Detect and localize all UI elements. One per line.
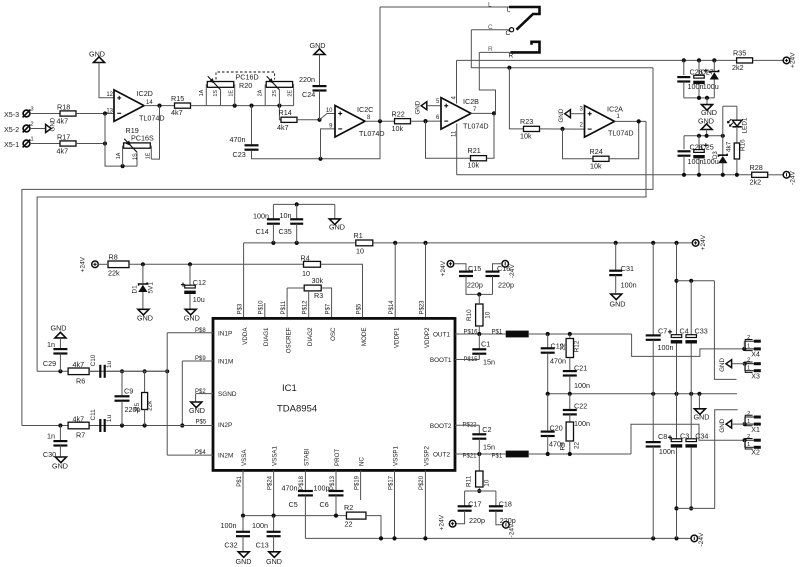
wire STABI pin to C5 — [304, 470, 306, 490]
svg-text:-24V: -24V — [698, 532, 705, 547]
wire D3 column upper — [722, 106, 724, 154]
wire C22 to R9 — [569, 414, 571, 422]
svg-text:220p: 220p — [469, 516, 485, 525]
svg-text:GND: GND — [236, 557, 252, 566]
resistor R8 — [108, 252, 129, 277]
capacitor C20 — [541, 394, 565, 454]
wire X5-2 to GND — [30, 128, 46, 130]
wire LED branch bridge — [723, 105, 737, 107]
svg-text:C17: C17 — [468, 499, 481, 508]
wire VDDP1 pin column — [394, 243, 396, 319]
svg-text:C1: C1 — [481, 340, 490, 349]
svg-text:R28: R28 — [750, 163, 763, 172]
wire IC2B output — [471, 112, 495, 114]
wire centre ground line — [548, 393, 737, 395]
svg-text:P$1: P$1 — [492, 454, 503, 460]
svg-text:470n: 470n — [550, 356, 566, 365]
wire C33 to gnd line — [690, 344, 692, 394]
wire sleeve line to IN2 row — [22, 68, 653, 426]
svg-text:OUT1: OUT1 — [433, 332, 450, 339]
wire gnd line to C8 — [652, 394, 654, 442]
wire R35 to +24V terminal — [753, 59, 784, 61]
LED LED1 — [727, 117, 748, 133]
svg-text:P$7: P$7 — [325, 303, 331, 314]
wire IN2 row — [22, 425, 213, 427]
svg-text:STABI: STABI — [303, 448, 310, 466]
wire OSCREF to R3 — [287, 287, 304, 289]
op-amp IC2D — [106, 89, 164, 122]
junction C7/C8 — [651, 392, 655, 396]
junction D1 — [141, 262, 145, 266]
wire IC2B pin11 to -24V rail — [456, 124, 458, 175]
wire X5-1 to R17 — [30, 143, 60, 145]
svg-text:IN2P: IN2P — [218, 422, 232, 429]
capacitor C21 — [563, 363, 590, 393]
junction C20 out — [546, 452, 550, 456]
svg-text:BOOT2: BOOT2 — [430, 423, 452, 430]
capacitor C2 — [455, 425, 495, 454]
svg-text:1: 1 — [747, 366, 750, 372]
wire to LED1 — [736, 106, 738, 120]
svg-text:100n: 100n — [574, 381, 590, 390]
svg-text:C15: C15 — [468, 264, 481, 273]
svg-text:GND: GND — [137, 313, 153, 322]
wire OUT1 net — [529, 333, 632, 335]
wire LED to R16 — [736, 127, 738, 143]
wire R21 to output — [487, 113, 495, 158]
ground at X5-2 — [46, 117, 57, 132]
svg-text:C4: C4 — [680, 326, 689, 335]
junction C7 — [651, 241, 655, 245]
wire OUT2 to R11 — [478, 454, 480, 471]
wire SGND to ground — [195, 394, 197, 402]
svg-text:1u: 1u — [106, 360, 113, 368]
wire PROT pin to C6 — [335, 470, 337, 490]
potentiometer R19 PC16S — [116, 126, 154, 166]
ground below C31 — [610, 294, 626, 309]
wire C15 to R10 node — [466, 276, 493, 294]
capacitor C26 — [677, 68, 703, 92]
wire DIAG1 stub — [264, 303, 266, 318]
junction gnd stub — [705, 134, 709, 138]
wire BOOT2 to C2 — [478, 425, 480, 434]
svg-text:C29: C29 — [43, 359, 56, 368]
ferrite bead L2 (P$1) — [506, 451, 529, 458]
svg-text:P$16: P$16 — [464, 330, 479, 336]
resistor R1 — [354, 231, 373, 256]
potentiometer R20 PC16D gang 1 — [199, 76, 235, 105]
svg-text:P$11: P$11 — [281, 300, 287, 314]
wire gnd line to C22 — [569, 394, 571, 410]
svg-text:GND: GND — [189, 406, 205, 415]
junction C23 tap — [249, 104, 253, 108]
zener diode D2 — [710, 70, 719, 80]
wire reference row — [129, 263, 304, 265]
svg-text:GND: GND — [719, 418, 726, 432]
resistor R9 — [559, 422, 580, 454]
svg-text:IC2D: IC2D — [137, 89, 153, 98]
junction C6 bottom — [334, 514, 338, 518]
wire IC2D output — [144, 105, 175, 107]
junction GND tap top — [705, 96, 709, 100]
junction C4/C3 — [674, 392, 678, 396]
svg-text:22: 22 — [573, 441, 580, 449]
svg-text:GND: GND — [266, 557, 282, 566]
svg-text:C34: C34 — [695, 432, 708, 441]
terminal -24V at C18 — [503, 522, 516, 538]
wire to C13 — [273, 516, 275, 532]
svg-text:2: 2 — [747, 335, 750, 341]
wire main volume row — [191, 105, 294, 107]
svg-text:1A: 1A — [199, 89, 205, 96]
wire C12 to ground — [189, 294, 191, 309]
svg-text:2k2: 2k2 — [750, 178, 762, 187]
junction IN1P column — [165, 369, 169, 373]
potentiometer R20 PC16D gang 2 — [258, 76, 294, 105]
svg-text:VSSP1: VSSP1 — [393, 445, 400, 466]
capacitor C22 — [563, 394, 590, 428]
svg-text:1: 1 — [31, 137, 34, 143]
svg-text:4k7: 4k7 — [277, 123, 289, 132]
svg-text:2S: 2S — [272, 90, 278, 97]
capacitor C19 — [541, 334, 566, 394]
wire to C33 — [690, 281, 692, 335]
junction VSSP2 — [423, 536, 427, 540]
svg-text:P$24: P$24 — [267, 475, 273, 490]
resistor R21 — [468, 146, 487, 169]
svg-text:1: 1 — [747, 442, 750, 448]
wire VSSA1 pin column — [273, 470, 275, 515]
svg-text:2: 2 — [747, 411, 750, 417]
junction C13 top — [272, 514, 276, 518]
svg-text:VSSP2: VSSP2 — [423, 445, 430, 466]
wire +24V to C7 — [652, 243, 654, 336]
junction C19 gnd — [546, 392, 550, 396]
svg-text:DIAG2: DIAG2 — [307, 327, 314, 346]
svg-text:R8: R8 — [109, 252, 118, 261]
wire C20 to OUT2 — [547, 436, 549, 454]
svg-text:C22: C22 — [574, 401, 587, 410]
resistor R18 — [57, 103, 77, 126]
ground below D1 — [137, 309, 153, 322]
svg-text:C10: C10 — [90, 354, 97, 366]
svg-text:2: 2 — [747, 434, 750, 440]
wire IC2C inv to feedback row — [321, 129, 336, 159]
svg-text:IN2M: IN2M — [218, 453, 233, 460]
wire R18 to IC2D inverting input — [76, 113, 114, 115]
wire R23 to IC2A inv — [540, 128, 585, 130]
svg-text:4k7: 4k7 — [73, 414, 85, 423]
svg-text:GND: GND — [89, 50, 105, 59]
svg-text:4k7: 4k7 — [73, 360, 85, 369]
svg-text:100n: 100n — [659, 447, 675, 456]
wire R2 to -24V rail — [366, 516, 381, 539]
junction R17 node — [103, 141, 107, 145]
svg-text:P$1: P$1 — [492, 330, 503, 336]
wire to R5 — [144, 371, 146, 392]
capacitor C34 — [685, 394, 708, 511]
wire R contact to IC2B output — [479, 52, 495, 113]
wire VSSA pin column — [242, 470, 244, 515]
junction X2 — [743, 438, 747, 442]
junction R12 — [568, 332, 572, 336]
svg-text:10n: 10n — [280, 211, 292, 220]
svg-text:VSSA: VSSA — [241, 449, 248, 466]
wire R4 to MODE pin — [321, 264, 363, 318]
svg-text:100n: 100n — [221, 521, 237, 530]
svg-text:+24V: +24V — [80, 256, 87, 272]
capacitor C14 — [253, 211, 280, 236]
wire to ground — [706, 98, 708, 105]
svg-text:R1: R1 — [354, 231, 363, 240]
ground at X3 — [719, 358, 732, 372]
junction IC2A inv node — [560, 127, 564, 131]
svg-text:1n: 1n — [47, 431, 55, 440]
junction IN1M to IN2 row — [180, 423, 184, 427]
wire X5-3 to R18 — [30, 113, 60, 115]
junction C17/C18 — [477, 489, 481, 493]
capacitor C15 — [459, 264, 483, 289]
svg-text:22: 22 — [345, 520, 353, 529]
svg-text:1u: 1u — [106, 415, 113, 423]
svg-text:+24V: +24V — [440, 260, 447, 276]
junction C3 bottom — [674, 536, 678, 540]
svg-text:R2: R2 — [344, 503, 353, 512]
svg-text:15n: 15n — [483, 357, 495, 366]
junction R2 — [379, 536, 383, 540]
svg-text:C9: C9 — [124, 387, 133, 396]
wire to C9 — [121, 371, 123, 396]
wire NC stub — [360, 470, 362, 500]
svg-text:100n: 100n — [621, 281, 637, 290]
wire IC2A output — [615, 120, 647, 122]
wire IC2B pin4 to +24V rail — [456, 60, 458, 103]
svg-text:22k: 22k — [147, 400, 154, 411]
svg-text:2E: 2E — [288, 90, 294, 97]
svg-text:VDDA: VDDA — [242, 327, 249, 345]
resistor R11 — [466, 454, 491, 491]
junction C30 — [58, 423, 62, 427]
svg-text:100n: 100n — [252, 521, 268, 530]
svg-text:GND: GND — [329, 223, 345, 232]
svg-text:13: 13 — [106, 109, 113, 115]
junction R5 top — [143, 369, 147, 373]
junction C29 — [58, 369, 62, 373]
wire R3 to OSC pin — [321, 288, 331, 318]
junction pot2 wiper — [277, 104, 281, 108]
connector X1 — [745, 411, 761, 434]
wire IC2C output — [365, 120, 395, 122]
svg-text:SGND: SGND — [218, 391, 237, 398]
svg-text:220p: 220p — [467, 281, 483, 290]
wire to C26 — [683, 60, 685, 75]
wire C3/C34 tie to stub end — [677, 410, 738, 509]
svg-text:C: C — [488, 24, 493, 31]
wire R6 to C10 — [89, 370, 98, 372]
wire C35 bottom lead — [296, 224, 298, 243]
wire OUT2 pin — [455, 453, 506, 455]
svg-text:14: 14 — [146, 100, 153, 106]
junction C19 — [546, 332, 550, 336]
junction C4 — [674, 241, 678, 245]
wire IN1M column — [181, 361, 183, 426]
wire terminal to C16 — [493, 264, 502, 271]
wire BOOT1 pin — [455, 359, 479, 361]
junction IC2B output — [492, 111, 496, 115]
svg-text:10: 10 — [302, 269, 310, 278]
junction sleeve to R23 — [507, 66, 511, 70]
svg-text:1n: 1n — [47, 340, 55, 349]
svg-text:VDDP1: VDDP1 — [394, 327, 401, 348]
svg-text:R3: R3 — [314, 291, 323, 300]
junction C32 top — [241, 514, 245, 518]
wire C33 tie line — [677, 280, 715, 282]
svg-text:12: 12 — [106, 92, 113, 98]
connector X5-1 — [4, 137, 34, 150]
IC U IC1 TDA8954 box — [213, 318, 455, 470]
wire IN1M stub — [182, 360, 213, 362]
wire C35 top lead — [296, 204, 298, 219]
svg-text:X2: X2 — [751, 450, 760, 457]
wire pot wiper down to R14 — [279, 106, 281, 120]
wire C6 to node row — [335, 495, 337, 515]
svg-text:OUT2: OUT2 — [433, 452, 450, 459]
svg-text:P$21: P$21 — [463, 454, 478, 460]
junction X4 — [742, 347, 746, 351]
svg-text:OSCREF: OSCREF — [286, 327, 293, 353]
wire VDDP2 pin column — [425, 243, 427, 319]
wire terminal to C15 — [454, 264, 466, 271]
wire X4 pins tie — [743, 341, 745, 349]
resistor R22 — [392, 109, 411, 132]
junction C35 top — [295, 202, 299, 206]
svg-text:TDA8954: TDA8954 — [277, 404, 317, 415]
svg-text:OSC: OSC — [330, 327, 337, 341]
wire +24V opamp rail — [457, 59, 737, 61]
svg-text:R11: R11 — [466, 475, 473, 487]
wire R5 bottom — [144, 410, 146, 426]
svg-text:22k: 22k — [108, 268, 120, 277]
wire ground to -filter rail — [706, 130, 708, 136]
svg-text:P$10: P$10 — [259, 300, 265, 315]
svg-text:10k: 10k — [520, 131, 532, 140]
resistor R12 — [560, 334, 581, 371]
wire DIAG2 pin column — [308, 291, 310, 318]
junction IC2C output / L line — [378, 119, 382, 123]
wire C27 bottom — [698, 84, 700, 98]
jack contact L — [509, 7, 540, 14]
svg-text:DIAG1: DIAG1 — [263, 327, 270, 346]
ground above IC2D — [89, 50, 105, 63]
wire to D2 — [713, 60, 715, 70]
svg-text:C12: C12 — [193, 278, 206, 287]
wire gnd line to C34 — [690, 394, 692, 439]
junction C9 top — [120, 369, 124, 373]
junction C27 bottom — [697, 96, 701, 100]
resistor R5 — [134, 371, 154, 425]
wire C5 to -24V rail — [304, 495, 306, 538]
svg-text:100n: 100n — [658, 343, 674, 352]
wire to C19 — [547, 334, 549, 348]
svg-text:GND: GND — [719, 358, 726, 372]
junction C2/R11 — [477, 452, 481, 456]
resistor R23 — [520, 117, 540, 140]
capacitor C27 — [693, 68, 719, 92]
svg-text:R17: R17 — [57, 133, 70, 142]
svg-text:D1: D1 — [132, 285, 139, 294]
svg-text:L: L — [488, 2, 492, 9]
wire C29 to IN1 row — [59, 354, 61, 372]
wire VSSA node row — [243, 515, 347, 517]
wire R22 to IC2B inv — [411, 120, 442, 122]
terminal +24V power — [692, 234, 707, 250]
wire C30 to ground — [59, 446, 61, 458]
ground below C30 — [52, 457, 68, 470]
wire tie line to stub end — [714, 281, 736, 380]
svg-text:5V1: 5V1 — [147, 282, 154, 294]
svg-text:X3: X3 — [751, 373, 760, 380]
wire gnd line to C3 — [676, 394, 678, 439]
wire R17 to inv node — [76, 143, 105, 145]
svg-text:P$5: P$5 — [196, 420, 207, 426]
connector X3 — [745, 358, 761, 381]
junction D3 bottom — [721, 173, 725, 177]
wire VSSP2 pin column — [424, 470, 426, 538]
wire to C17 — [464, 491, 466, 506]
capacitor C32 — [221, 516, 251, 552]
capacitor C30 — [43, 426, 68, 459]
wire SGND stub — [196, 393, 213, 395]
capacitor C12 — [181, 278, 206, 304]
terminal -24V power — [691, 532, 705, 547]
svg-text:-24V: -24V — [509, 523, 516, 538]
wire -24V bottom rail — [305, 537, 691, 539]
svg-text:IC2A: IC2A — [607, 105, 623, 114]
svg-text:C6: C6 — [320, 500, 329, 509]
svg-text:R6: R6 — [76, 376, 85, 385]
svg-text:10k: 10k — [590, 162, 602, 171]
ground above -24V filter — [698, 116, 714, 129]
junction C24/R14 node — [317, 118, 321, 122]
resistor R35 — [732, 49, 753, 73]
wire C21 to gnd line — [569, 376, 571, 394]
svg-text:C30: C30 — [43, 450, 56, 459]
svg-text:220p: 220p — [498, 281, 514, 290]
svg-text:IC1: IC1 — [282, 383, 297, 394]
svg-text:X4: X4 — [751, 352, 760, 359]
svg-text:P$19: P$19 — [354, 475, 360, 490]
ground below C32 — [236, 552, 252, 566]
svg-text:TL074D: TL074D — [139, 114, 165, 123]
wire to C18 — [495, 491, 497, 506]
svg-text:IN1P: IN1P — [218, 330, 232, 337]
capacitor C1 — [472, 334, 495, 366]
svg-text:C24: C24 — [302, 90, 315, 99]
wire C34 to tie — [690, 448, 692, 509]
wire X1 pins tie — [744, 417, 746, 424]
junction X1 — [743, 422, 747, 426]
junction R5 bottom — [143, 423, 147, 427]
jack switch arm C-L — [517, 14, 533, 29]
wire D3 to -24V rail — [722, 163, 724, 175]
svg-text:GND: GND — [414, 100, 421, 114]
svg-text:TL074D: TL074D — [359, 129, 385, 138]
junction R19 pin 1A — [121, 164, 125, 168]
svg-text:GND: GND — [310, 41, 326, 50]
capacitor C23 — [230, 135, 259, 159]
svg-text:1E: 1E — [146, 152, 152, 159]
svg-text:C5: C5 — [289, 500, 298, 509]
